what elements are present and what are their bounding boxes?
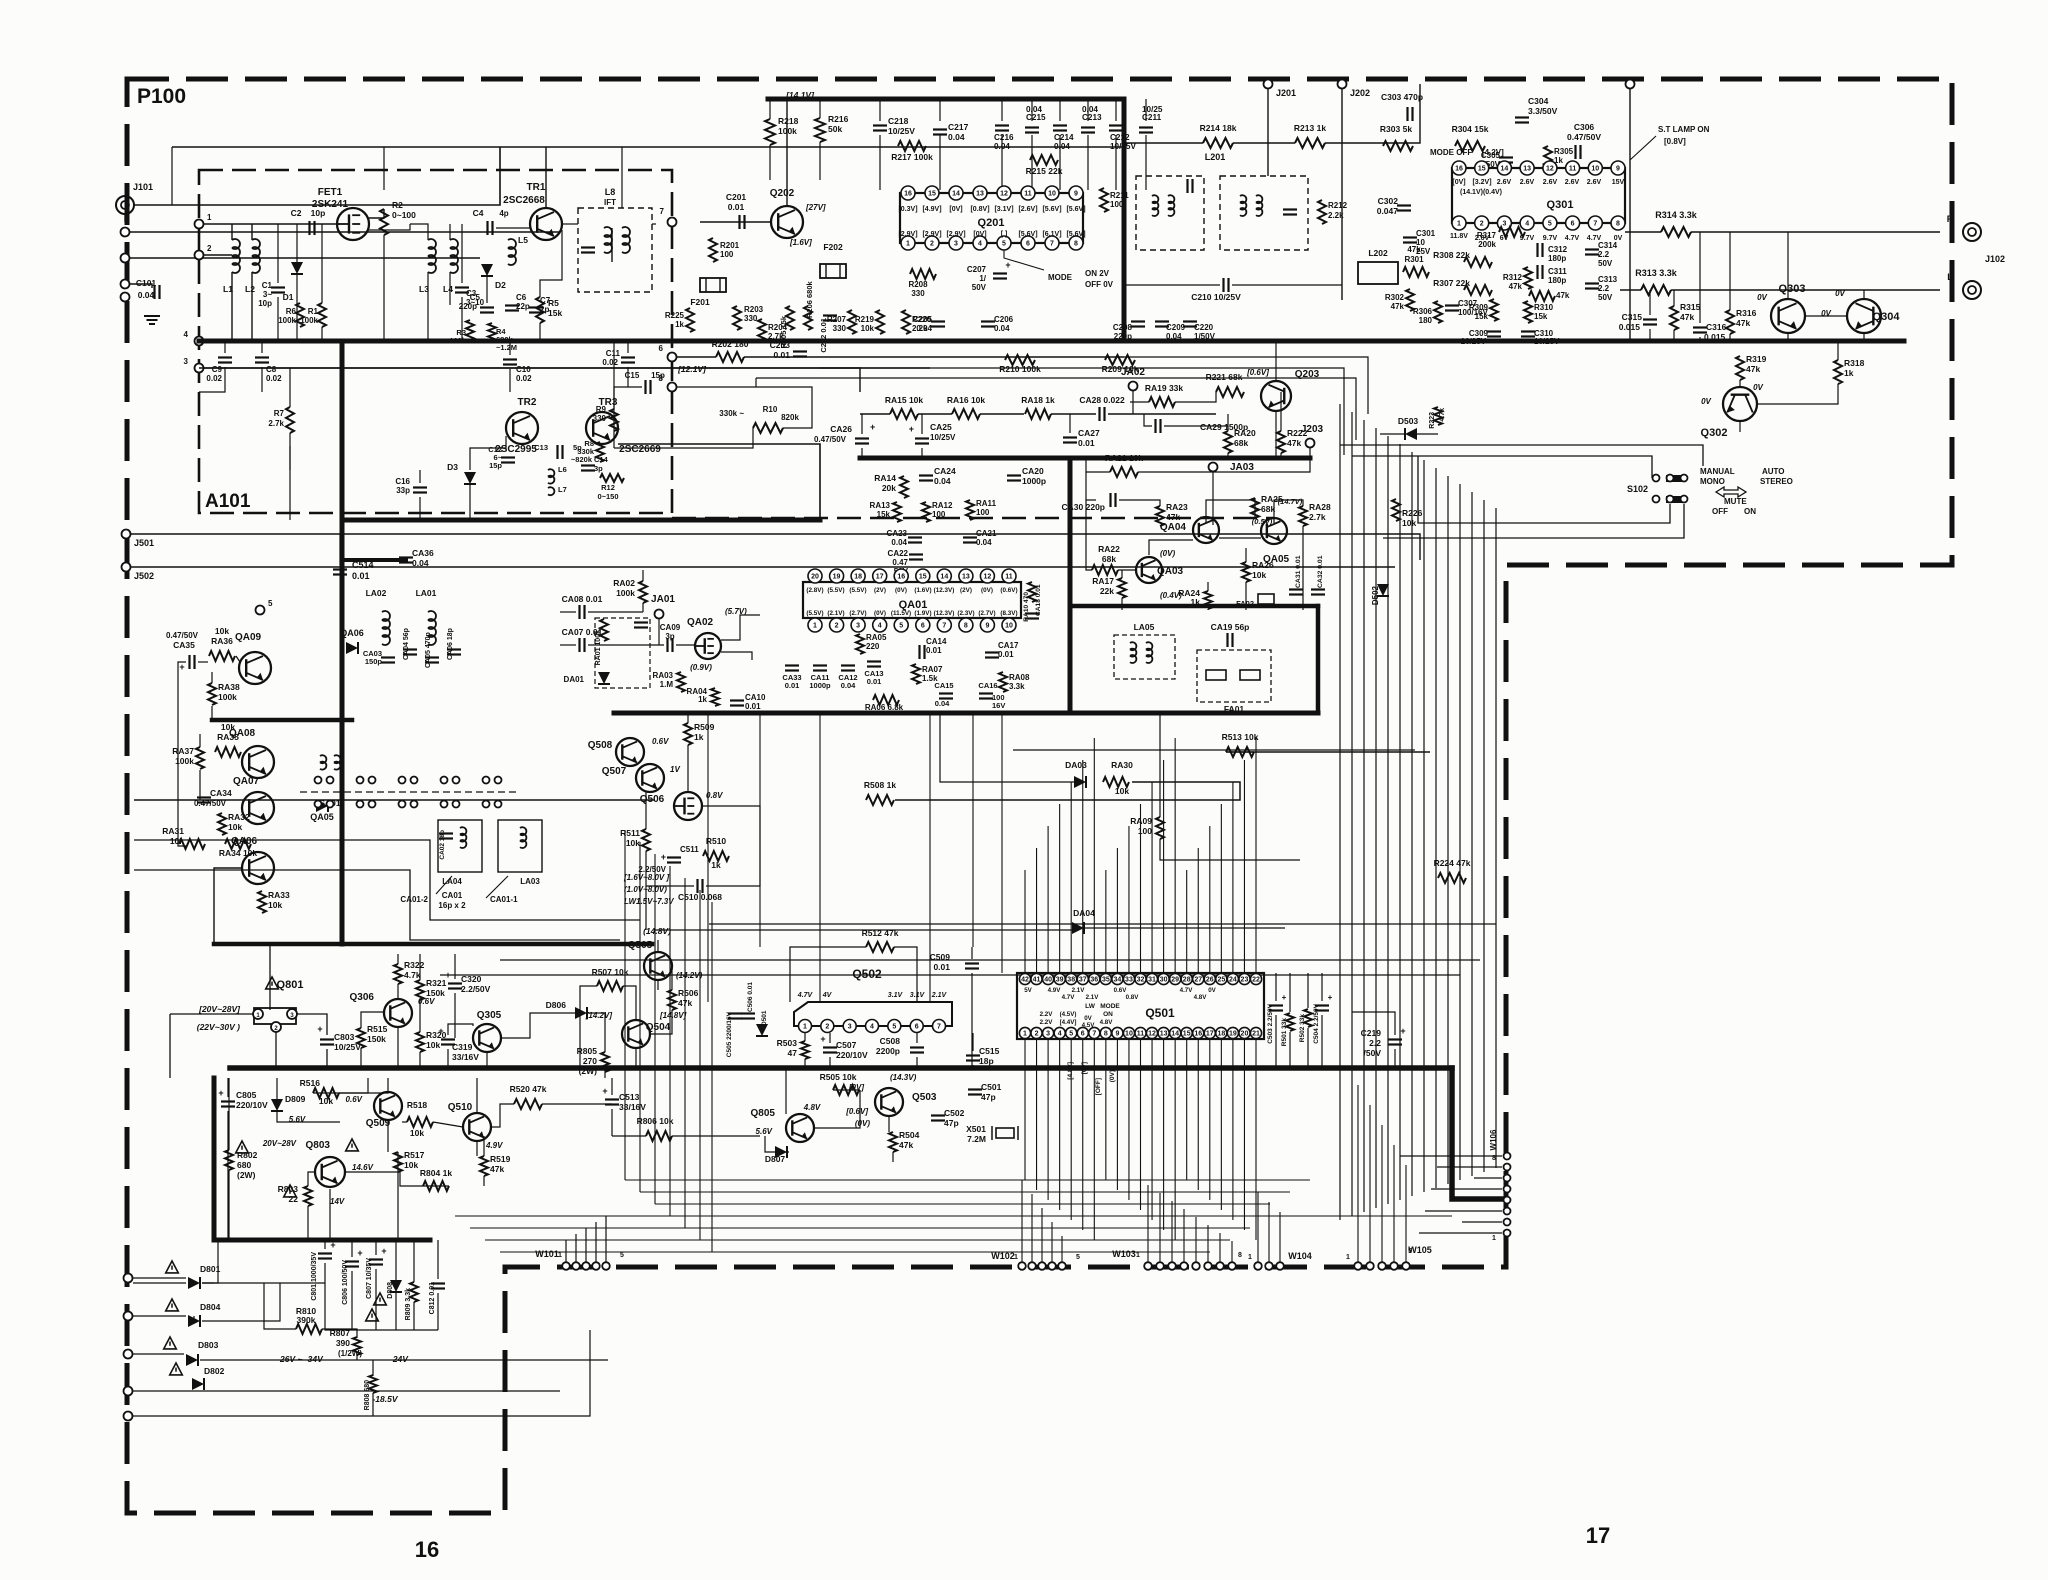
svg-text:0.02: 0.02 — [602, 358, 618, 367]
wire — [202, 1240, 218, 1283]
svg-text:13: 13 — [962, 574, 970, 581]
connector pin — [124, 1412, 133, 1421]
svg-text:12: 12 — [1148, 1031, 1156, 1038]
svg-text:C513: C513 — [619, 1092, 640, 1102]
wire — [769, 145, 771, 180]
svg-text:10: 10 — [1048, 191, 1056, 198]
resistor R316 — [1726, 308, 1757, 334]
svg-text:TR1: TR1 — [527, 182, 546, 193]
svg-text:0.04: 0.04 — [138, 290, 155, 300]
svg-text:0.02: 0.02 — [206, 374, 222, 383]
svg-text:L: L — [1947, 272, 1953, 282]
wire long h3 — [820, 368, 1344, 455]
resistor R810 — [296, 1306, 322, 1334]
wire — [894, 947, 917, 1002]
svg-text:34: 34 — [1114, 977, 1122, 984]
resistor R220 — [902, 310, 932, 334]
svg-text:9: 9 — [985, 623, 989, 630]
svg-text:0~100: 0~100 — [392, 210, 416, 220]
svg-text:+: + — [179, 662, 184, 672]
wire S102 loop bottom2 — [1383, 504, 1684, 538]
svg-text:C304: C304 — [1528, 96, 1549, 106]
connector pin — [124, 1350, 133, 1359]
svg-text:RA28: RA28 — [1309, 502, 1331, 512]
wire — [202, 1283, 280, 1321]
resistor R221 — [1206, 372, 1244, 397]
capacitor CA17 — [985, 641, 1019, 659]
svg-text:1.M: 1.M — [660, 680, 674, 689]
resistor R215 — [1026, 155, 1063, 176]
connector pin — [121, 280, 130, 289]
wire — [476, 1078, 478, 1113]
diode D802 — [170, 1363, 225, 1390]
svg-text:2.7k: 2.7k — [268, 419, 284, 428]
resistor R802 — [225, 1141, 258, 1180]
svg-text:35: 35 — [1102, 977, 1110, 984]
svg-text:3: 3 — [848, 1024, 852, 1031]
capacitor C320 — [445, 970, 490, 994]
svg-text:1/: 1/ — [979, 274, 986, 283]
wire — [1352, 1012, 1395, 1035]
resistor RA36 — [209, 626, 235, 661]
svg-text:22p: 22p — [516, 302, 530, 311]
svg-text:+: + — [661, 852, 666, 862]
svg-text:[0.6V]: [0.6V] — [1246, 368, 1269, 377]
wire — [178, 662, 186, 846]
svg-text:[3.2V]: [3.2V] — [1472, 179, 1491, 186]
svg-text:CA01-2: CA01-2 — [400, 895, 428, 904]
label 0V b — [1835, 289, 1845, 298]
wire — [326, 1049, 328, 1068]
svg-text:2: 2 — [207, 244, 212, 253]
svg-text:1: 1 — [1346, 1254, 1350, 1261]
label 0V e — [1701, 397, 1711, 406]
wire — [1086, 500, 1092, 570]
svg-text:180p: 180p — [1548, 254, 1566, 263]
capacitor C316 — [1693, 322, 1727, 342]
svg-text:4: 4 — [1058, 1031, 1062, 1038]
resistor R10 — [719, 405, 799, 433]
diode D502 — [1371, 584, 1389, 605]
node 5 — [256, 599, 274, 615]
svg-text:3: 3 — [1046, 1031, 1050, 1038]
svg-text:R303 5k: R303 5k — [1380, 124, 1412, 134]
svg-text:C501: C501 — [981, 1082, 1002, 1092]
wire — [687, 713, 689, 723]
capacitor C4 — [473, 208, 509, 235]
svg-text:R201: R201 — [720, 241, 740, 250]
wire — [1837, 341, 1839, 360]
label QA01 voltages bottom — [806, 610, 1017, 617]
wire — [169, 1014, 171, 1078]
svg-text:R520 47k: R520 47k — [510, 1084, 547, 1094]
label ST LAMP — [1658, 125, 1710, 146]
resistor R520 — [510, 1084, 547, 1109]
svg-text:[2.9V]: [2.9V] — [922, 231, 941, 238]
wire — [1069, 414, 1071, 433]
capacitor C220 — [1183, 322, 1216, 342]
svg-text:68k: 68k — [1234, 438, 1248, 448]
wire — [476, 1141, 478, 1156]
svg-text:S102: S102 — [1627, 484, 1648, 494]
capacitor CA22 — [888, 549, 923, 576]
transistor Q303 — [1771, 283, 1805, 333]
svg-text:R510: R510 — [706, 836, 727, 846]
svg-text:ON 2V: ON 2V — [1085, 269, 1110, 278]
svg-text:C219: C219 — [1361, 1028, 1382, 1038]
svg-text:CA02 18p: CA02 18p — [439, 830, 446, 860]
inductor L1 — [223, 239, 240, 294]
svg-text:C10: C10 — [516, 365, 531, 374]
svg-text:RA05: RA05 — [866, 633, 887, 642]
svg-text:QA04: QA04 — [1160, 522, 1187, 533]
svg-text:CA01-1: CA01-1 — [490, 895, 518, 904]
switch S102 — [1627, 475, 1688, 504]
svg-text:Q306: Q306 — [350, 992, 375, 1003]
svg-text:DA04: DA04 — [1073, 908, 1095, 918]
wire W103 drop — [1231, 1241, 1233, 1262]
svg-text:[3.1V]: [3.1V] — [994, 206, 1013, 213]
svg-text:2.2: 2.2 — [1598, 284, 1610, 293]
svg-text:RA26: RA26 — [1252, 560, 1274, 570]
svg-text:MONO: MONO — [1700, 477, 1725, 486]
transistor QA05 — [1261, 518, 1289, 565]
svg-text:100: 100 — [720, 250, 734, 259]
wire — [264, 1283, 296, 1329]
svg-text:R512 47k: R512 47k — [862, 928, 899, 938]
svg-text:2.2V: 2.2V — [1040, 1011, 1054, 1018]
svg-text:47k: 47k — [1287, 438, 1301, 448]
wire — [433, 1122, 463, 1127]
svg-text:4.8V: 4.8V — [1100, 1019, 1114, 1026]
label Q201 pin voltages top — [898, 206, 1085, 213]
svg-text:CA24: CA24 — [934, 466, 956, 476]
svg-text:0.04: 0.04 — [412, 558, 429, 568]
capacitor CA18 — [1025, 584, 1042, 618]
capacitor C314 — [1585, 241, 1618, 268]
svg-text:9: 9 — [1616, 166, 1620, 173]
capacitor CA32 — [1311, 555, 1325, 594]
svg-text:2.2/50V: 2.2/50V — [638, 865, 666, 874]
svg-text:0.04: 0.04 — [976, 538, 992, 547]
svg-text:7: 7 — [1092, 1031, 1096, 1038]
wire — [419, 470, 421, 483]
wire — [204, 223, 340, 225]
svg-text:RA11: RA11 — [976, 499, 997, 508]
svg-text:MODE OFF: MODE OFF — [1430, 148, 1472, 157]
capacitor CA20 — [1007, 466, 1046, 486]
svg-text:330k ~: 330k ~ — [719, 409, 744, 418]
transistor QA07 — [233, 776, 274, 824]
svg-text:S.T LAMP ON: S.T LAMP ON — [1658, 125, 1710, 134]
wire — [325, 1263, 438, 1330]
svg-text:1: 1 — [803, 1024, 807, 1031]
label Q301 voltages top — [1452, 179, 1624, 186]
wire — [228, 1078, 230, 1150]
capacitor CA14 — [920, 637, 948, 659]
wire — [588, 611, 643, 613]
ceramic filter FA02 — [1236, 594, 1274, 608]
svg-text:ON: ON — [1744, 507, 1756, 516]
wire — [423, 1185, 449, 1187]
wire — [227, 1078, 229, 1097]
svg-text:2.6V: 2.6V — [1565, 179, 1580, 186]
wire — [269, 944, 271, 1010]
wire — [383, 235, 385, 341]
connector pin — [121, 228, 130, 237]
wire — [1115, 135, 1117, 190]
svg-text:R225: R225 — [665, 311, 685, 320]
svg-text:D809: D809 — [285, 1094, 306, 1104]
svg-text:23: 23 — [1241, 977, 1249, 984]
svg-text:14.6V: 14.6V — [352, 1163, 374, 1172]
svg-text:39: 39 — [1056, 977, 1064, 984]
resistor R807 — [330, 1309, 379, 1358]
wire — [1739, 380, 1741, 387]
resistor R211 — [1100, 188, 1129, 212]
svg-text:C210 10/25V: C210 10/25V — [1191, 292, 1241, 302]
wire — [650, 1010, 672, 1034]
node JA01 — [651, 594, 675, 619]
svg-text:C11: C11 — [606, 349, 621, 358]
svg-text:CA10: CA10 — [745, 693, 766, 702]
resistor R805 — [577, 1046, 609, 1076]
capacitor C513 — [602, 1086, 646, 1112]
wire — [1124, 284, 1220, 286]
wire W104 drop — [1257, 1192, 1259, 1262]
svg-text:680: 680 — [237, 1160, 251, 1170]
inductor L6 L7 — [548, 465, 567, 495]
wire W106 feed 2 — [1474, 1177, 1502, 1179]
svg-text:2.1V: 2.1V — [1086, 994, 1100, 1001]
wire — [289, 433, 291, 470]
svg-text:14: 14 — [940, 574, 948, 581]
wire — [642, 570, 644, 581]
svg-text:RA33: RA33 — [268, 890, 290, 900]
svg-text:(14.7V): (14.7V) — [1278, 497, 1303, 506]
wire — [133, 1353, 184, 1355]
wire — [419, 1052, 421, 1068]
resistor R507 — [592, 967, 629, 991]
svg-text:RA36: RA36 — [211, 636, 233, 646]
svg-text:R219: R219 — [855, 315, 875, 324]
resistor RA13 — [870, 501, 901, 522]
svg-text:Q801: Q801 — [277, 979, 304, 991]
resistor R225 — [665, 308, 694, 332]
svg-text:100: 100 — [976, 508, 990, 517]
wire — [419, 1000, 421, 1032]
svg-text:C1: C1 — [262, 281, 273, 290]
resistor R224 — [1434, 858, 1471, 883]
svg-text:0.04: 0.04 — [891, 538, 907, 547]
svg-text:1: 1 — [1492, 1235, 1496, 1242]
wire Q501 riser — [1093, 738, 1095, 973]
resistor R808 — [364, 1375, 377, 1410]
svg-text:47k: 47k — [490, 1164, 504, 1174]
transformer L201 — [1136, 152, 1308, 250]
wire W106 feed 5 — [1425, 1210, 1502, 1212]
wire — [1164, 425, 1228, 427]
svg-text:F202: F202 — [823, 242, 843, 252]
resistor R214 — [1200, 123, 1237, 148]
wire — [860, 413, 890, 415]
svg-text:100k: 100k — [218, 692, 237, 702]
wire — [387, 1078, 389, 1092]
svg-text:19: 19 — [833, 574, 841, 581]
svg-text:11: 11 — [1137, 1031, 1145, 1038]
svg-text:12: 12 — [984, 574, 992, 581]
svg-text:41: 41 — [1033, 977, 1041, 984]
svg-text:-18.5V: -18.5V — [372, 1394, 398, 1404]
resistor R307 — [1433, 278, 1492, 295]
wire — [375, 1269, 377, 1330]
resistor R203 — [733, 305, 764, 330]
svg-text:FA01: FA01 — [1224, 704, 1245, 714]
transistor QA04 — [1160, 517, 1219, 543]
svg-text:RA38: RA38 — [218, 682, 240, 692]
svg-text:3.3/50V: 3.3/50V — [1528, 106, 1558, 116]
svg-text:C302: C302 — [1378, 196, 1399, 206]
capacitor C5 — [459, 293, 494, 313]
wire — [133, 1330, 590, 1416]
svg-text:[0.3V]: [0.3V] — [898, 206, 917, 213]
wire — [397, 954, 399, 964]
wire — [483, 1176, 485, 1186]
svg-text:40: 40 — [1044, 977, 1052, 984]
svg-text:(14.1V)(0.4V): (14.1V)(0.4V) — [1460, 189, 1502, 196]
resistor R9 — [593, 405, 618, 431]
wire bottom mesh 0 — [625, 1179, 1310, 1181]
diode D2 — [481, 264, 506, 290]
resistor R217 — [891, 141, 933, 162]
svg-text:17: 17 — [876, 574, 884, 581]
svg-text:(1.9V): (1.9V) — [914, 610, 931, 617]
wire W105 drop — [1393, 1145, 1395, 1262]
capacitor C812 — [429, 1282, 445, 1314]
wire — [940, 713, 1074, 782]
svg-text:R211: R211 — [1110, 191, 1129, 200]
capacitor C303 — [1381, 92, 1423, 121]
wire — [397, 984, 399, 999]
wire — [671, 966, 673, 990]
svg-text:CA30 220p: CA30 220p — [1062, 502, 1105, 512]
svg-text:D807: D807 — [765, 1154, 786, 1164]
wire — [892, 1152, 894, 1162]
wire — [436, 876, 452, 894]
wire left drop 3 — [669, 866, 671, 1216]
wire — [1145, 135, 1147, 190]
capacitor C2 — [291, 208, 326, 235]
capacitor CA11 — [809, 666, 831, 691]
svg-text:L5: L5 — [518, 235, 528, 245]
svg-text:Q304: Q304 — [1873, 311, 1901, 323]
wire — [1051, 413, 1096, 415]
wire — [199, 367, 225, 392]
wire — [1119, 500, 1160, 506]
svg-text:11: 11 — [1005, 574, 1013, 581]
svg-text:C16: C16 — [395, 477, 410, 486]
wire W106 feed 1 — [1437, 1166, 1502, 1168]
A101 sub-board boundary (dashed) — [199, 170, 672, 513]
wire S102 loop top — [1440, 445, 1703, 466]
node 3 — [184, 357, 204, 373]
label 0V d — [1753, 383, 1763, 392]
svg-text:6: 6 — [659, 344, 664, 353]
wire — [560, 644, 576, 646]
svg-text:1: 1 — [558, 1252, 562, 1259]
svg-text:RA02: RA02 — [613, 578, 635, 588]
svg-text:R519: R519 — [490, 1154, 511, 1164]
svg-text:4: 4 — [1525, 221, 1529, 228]
svg-text:STEREO: STEREO — [1760, 477, 1793, 486]
capacitor CA15 — [934, 681, 953, 708]
wire W105 drop — [1405, 1165, 1407, 1262]
svg-text:17: 17 — [1206, 1031, 1214, 1038]
svg-text:~1.2M: ~1.2M — [496, 343, 517, 352]
svg-text:R223: R223 — [1429, 412, 1436, 429]
svg-text:3.1V: 3.1V — [888, 992, 904, 999]
capacitor CA09 — [660, 623, 681, 652]
label 4.8V Q805 — [803, 1103, 821, 1112]
svg-text:7: 7 — [942, 623, 946, 630]
svg-text:10k: 10k — [410, 1128, 424, 1138]
wire — [1130, 401, 1149, 403]
label 14.8V — [643, 926, 671, 936]
svg-text:+: + — [1328, 993, 1333, 1002]
wire left drop 2 — [654, 854, 656, 1204]
svg-text:CA05 470p: CA05 470p — [425, 632, 432, 668]
svg-text:(0V): (0V) — [981, 587, 993, 594]
wire — [1212, 472, 1214, 525]
svg-text:[5.6V]: [5.6V] — [1042, 206, 1061, 213]
resistor RA08 — [999, 672, 1030, 692]
resistor R216 — [815, 114, 849, 142]
svg-text:CA15: CA15 — [934, 681, 953, 690]
svg-text:(2.7V): (2.7V) — [849, 610, 866, 617]
svg-text:18: 18 — [1217, 1031, 1225, 1038]
label tuning range3 — [624, 897, 674, 906]
svg-text:220: 220 — [866, 642, 880, 651]
svg-text:0.01: 0.01 — [785, 681, 800, 690]
wire — [307, 1206, 309, 1240]
svg-text:0.047: 0.047 — [1377, 206, 1399, 216]
svg-text:5: 5 — [1069, 1031, 1073, 1038]
wire — [461, 224, 463, 283]
inductor LA03 — [498, 820, 542, 886]
label 14.2V Q504 — [585, 1011, 613, 1020]
svg-text:10k: 10k — [626, 838, 640, 848]
svg-text:MODE: MODE — [1100, 1003, 1120, 1010]
svg-text:C307: C307 — [1458, 299, 1478, 308]
wire — [204, 254, 232, 256]
wire — [755, 378, 757, 387]
wire — [397, 1027, 399, 1068]
wire A101 internal bus — [342, 341, 820, 520]
svg-text:16V: 16V — [992, 701, 1005, 710]
capacitor CA10 — [730, 693, 766, 711]
svg-text:10: 10 — [1591, 166, 1599, 173]
svg-text:R322: R322 — [404, 960, 425, 970]
svg-text:[4.4V]: [4.4V] — [1060, 1019, 1077, 1026]
wire — [501, 1013, 575, 1038]
svg-text:10/25: 10/25 — [1142, 105, 1163, 114]
svg-text:+: + — [218, 1088, 223, 1098]
wire W106 feed 6 — [1462, 1221, 1502, 1223]
svg-text:4.8V: 4.8V — [803, 1103, 821, 1112]
svg-text:Q503: Q503 — [912, 1092, 937, 1103]
wire — [1144, 414, 1152, 426]
wire Q501 riser — [1220, 804, 1222, 973]
